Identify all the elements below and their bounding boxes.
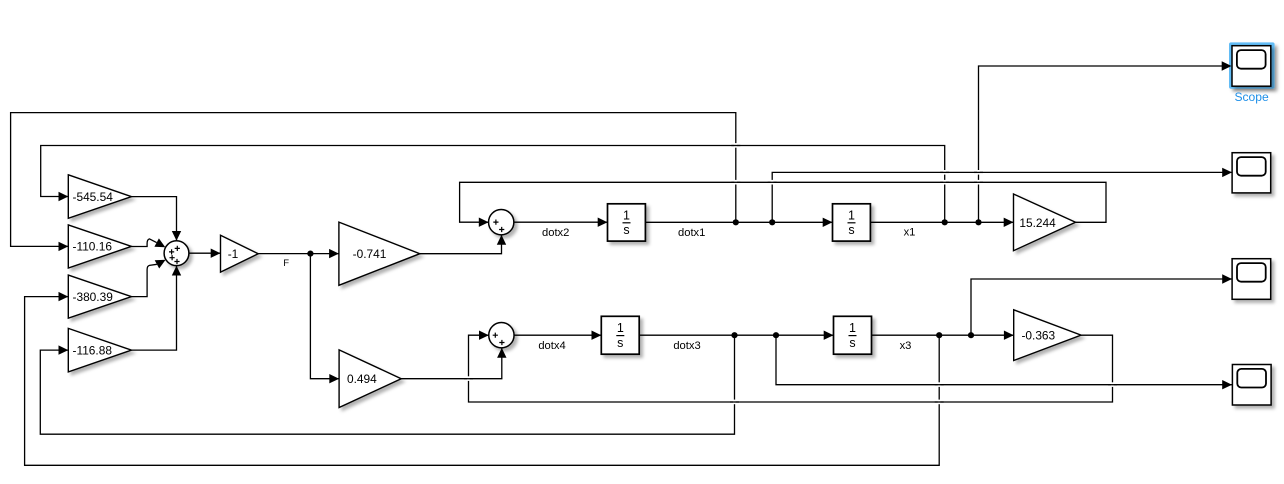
svg-text:x3: x3 bbox=[900, 340, 912, 352]
svg-text:dotx1: dotx1 bbox=[678, 227, 705, 239]
svg-text:15.244: 15.244 bbox=[1019, 216, 1056, 230]
svg-text:-0.741: -0.741 bbox=[353, 247, 387, 261]
svg-text:s: s bbox=[849, 336, 855, 350]
svg-text:1: 1 bbox=[623, 208, 630, 222]
svg-text:F: F bbox=[283, 258, 289, 269]
svg-text:1: 1 bbox=[849, 321, 856, 335]
svg-text:dotx2: dotx2 bbox=[542, 227, 569, 239]
svg-text:-545.54: -545.54 bbox=[73, 190, 114, 204]
svg-text:1: 1 bbox=[617, 321, 624, 335]
svg-text:-380.39: -380.39 bbox=[73, 290, 114, 304]
svg-text:1: 1 bbox=[848, 208, 855, 222]
svg-text:s: s bbox=[623, 223, 629, 237]
svg-text:-116.88: -116.88 bbox=[73, 343, 113, 357]
svg-text:Scope: Scope bbox=[1234, 90, 1269, 104]
svg-text:dotx3: dotx3 bbox=[673, 340, 700, 352]
svg-text:dotx4: dotx4 bbox=[538, 340, 565, 352]
svg-text:-0.363: -0.363 bbox=[1021, 328, 1055, 342]
svg-text:s: s bbox=[617, 336, 623, 350]
svg-text:-110.16: -110.16 bbox=[73, 240, 113, 254]
svg-text:x1: x1 bbox=[904, 227, 916, 239]
svg-text:s: s bbox=[848, 223, 854, 237]
svg-text:0.494: 0.494 bbox=[347, 372, 377, 386]
svg-text:-1: -1 bbox=[228, 247, 239, 261]
